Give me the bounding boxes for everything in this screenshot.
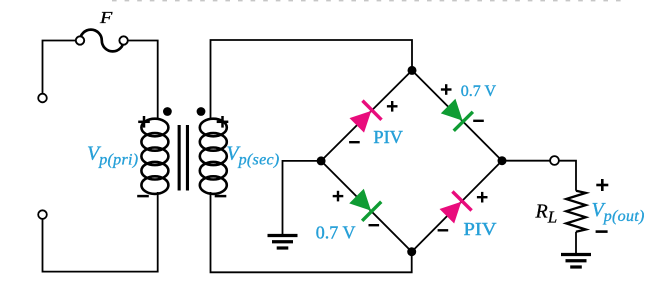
label - (D4) xyxy=(438,229,449,231)
wire: left node to ground xyxy=(283,161,322,234)
diode D4 (bottom-right, magenta) xyxy=(437,190,473,225)
diode D3 (bottom-left, green) xyxy=(347,187,382,222)
wire: fuse to primary top xyxy=(128,41,158,120)
label - (output) xyxy=(596,230,608,233)
transformer phasing dot (primary) xyxy=(163,107,172,116)
label + (D3) xyxy=(333,191,344,202)
fuse F left pin circle xyxy=(76,36,84,44)
wire: bridge arm top-right xyxy=(412,70,502,160)
wire: output terminal to resistor top xyxy=(559,161,576,191)
wire: bridge arm left-top xyxy=(321,70,412,160)
diode D2 (top-right, green) xyxy=(439,97,475,132)
diode D1 (top-left, magenta) xyxy=(347,99,382,135)
transformer primary winding xyxy=(141,119,168,194)
terminal: output (open circle) xyxy=(550,156,559,165)
label - (primary bottom) xyxy=(137,195,149,198)
terminal: AC input bottom (open circle) xyxy=(38,210,47,219)
label - (D2) xyxy=(473,120,484,122)
label + (output) xyxy=(596,179,608,191)
resistor RL (zigzag) xyxy=(566,191,586,232)
label + (D1) xyxy=(387,101,398,112)
ground (bridge left) xyxy=(268,236,298,249)
transformer secondary winding xyxy=(200,119,227,194)
node: bridge bottom junction xyxy=(407,247,416,256)
node: bridge right junction xyxy=(498,156,507,165)
label + (primary top) xyxy=(138,116,150,128)
terminal: AC input top (open circle) xyxy=(38,94,47,103)
wire: right node to output terminal xyxy=(502,160,550,162)
svg-text:PIV: PIV xyxy=(464,219,497,239)
wire: secondary bottom to bridge bottom node xyxy=(211,192,412,272)
svg-text:PIV: PIV xyxy=(373,127,403,147)
svg-text:0.7 V: 0.7 V xyxy=(461,83,497,100)
transformer phasing dot (secondary) xyxy=(197,107,206,116)
node: bridge top junction xyxy=(408,66,417,75)
wire: bridge arm left-bottom xyxy=(321,161,412,252)
label - (D3) xyxy=(369,224,380,226)
fuse F right pin circle xyxy=(119,36,127,44)
wire: bottom-left terminal down, right, up to primary bottom xyxy=(43,192,158,272)
label + (secondary top) xyxy=(217,116,229,128)
wire: secondary top to bridge top node xyxy=(211,40,413,119)
ground (output) xyxy=(561,255,591,268)
label + (D2) xyxy=(441,84,452,95)
label - (secondary bottom) xyxy=(215,195,227,198)
wire: bridge arm bottom-right xyxy=(412,161,502,252)
wire: resistor bottom to ground xyxy=(575,232,577,254)
svg-text:F: F xyxy=(99,8,113,27)
fuse F body (S-curve) xyxy=(80,30,124,52)
label - (D1) xyxy=(349,141,360,143)
svg-text:0.7 V: 0.7 V xyxy=(316,223,356,243)
label + (D4) xyxy=(477,192,488,203)
wire: top-left terminal up and right to fuse xyxy=(43,41,77,95)
transformer core bars xyxy=(178,125,181,191)
node: bridge left junction xyxy=(317,156,326,165)
